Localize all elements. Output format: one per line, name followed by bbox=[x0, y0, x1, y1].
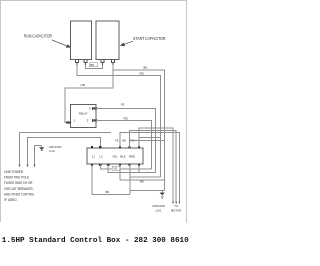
svg-text:YEL: YEL bbox=[112, 154, 118, 158]
terminal T2 (run cap right) bbox=[84, 60, 87, 63]
svg-text:RD: RD bbox=[124, 116, 129, 120]
wire YE from relay pin 5 bbox=[96, 108, 156, 172]
terminal T1 (run cap left) bbox=[75, 60, 78, 63]
svg-text:L1: L1 bbox=[92, 154, 96, 158]
ground lug (left) bbox=[40, 145, 44, 150]
terminal T3 (start cap left) bbox=[101, 60, 104, 63]
terminal block top connection dots bbox=[91, 146, 140, 149]
relay pin 1 bbox=[66, 121, 71, 123]
RED column riser to motor bundle bbox=[139, 128, 173, 203]
svg-text:RED: RED bbox=[129, 154, 135, 158]
BLK column riser to motor bundle bbox=[129, 130, 176, 203]
wire L2 terminal loop to relay pin2 wire bbox=[100, 165, 151, 170]
wire RD tap joining RED column bbox=[139, 137, 161, 139]
line power ground wire bbox=[35, 145, 42, 166]
svg-text:FUSED SWITCH OR: FUSED SWITCH OR bbox=[4, 181, 33, 185]
line power source note bbox=[4, 170, 35, 202]
label YE below block bbox=[112, 166, 119, 170]
svg-text:RUN CAPACITOR: RUN CAPACITOR bbox=[24, 34, 52, 39]
BLK terminal riser down bbox=[129, 165, 131, 195]
arrow to run capacitor bbox=[52, 40, 70, 47]
svg-text:FROM TWO POLE: FROM TWO POLE bbox=[4, 176, 30, 180]
jumper wire T2-T3 bbox=[86, 65, 103, 69]
svg-text:YE: YE bbox=[113, 167, 117, 171]
line power wire L1 (runs under relay to motor bundle) bbox=[20, 133, 112, 167]
svg-text:BK: BK bbox=[140, 180, 144, 184]
svg-text:OR: OR bbox=[81, 83, 86, 87]
terminal block TB1 bbox=[87, 148, 143, 164]
motor wire arrows bbox=[172, 202, 180, 204]
svg-text:1.5HP Standard Control Box - 2: 1.5HP Standard Control Box - 282 300 861… bbox=[2, 237, 189, 245]
svg-text:BLK: BLK bbox=[120, 154, 126, 158]
svg-text:L2: L2 bbox=[99, 154, 103, 158]
svg-text:YE: YE bbox=[121, 103, 125, 107]
line power wire L2 bbox=[28, 138, 101, 167]
wire from relay pin 2 bbox=[96, 120, 152, 169]
start capacitor C2 bbox=[96, 21, 119, 60]
svg-text:START CAPACITOR: START CAPACITOR bbox=[133, 36, 166, 41]
svg-text:CIRCUIT BREAKER,: CIRCUIT BREAKER, bbox=[4, 187, 34, 191]
wire BK from start capacitor to right bbox=[113, 65, 165, 191]
svg-text:LINE POWER: LINE POWER bbox=[4, 170, 23, 174]
svg-text:BK: BK bbox=[90, 63, 94, 67]
arrows at line power wire ends bbox=[19, 165, 36, 167]
wire aux terminal loop to YE wire bbox=[108, 165, 155, 173]
jumper from BLK riser to L1 terminal bbox=[92, 165, 130, 195]
svg-text:LUG: LUG bbox=[49, 149, 55, 153]
relay U1 bbox=[71, 105, 97, 128]
wire BLK terminal loop to RD wire bbox=[130, 176, 161, 178]
to motor label bbox=[171, 204, 181, 212]
wire from BK run to BLK riser (bottom) bbox=[130, 190, 165, 192]
svg-text:BK: BK bbox=[106, 190, 110, 194]
svg-text:BK: BK bbox=[122, 138, 126, 142]
arrow to start capacitor bbox=[121, 41, 133, 46]
ground lug label (right) bbox=[152, 204, 164, 212]
terminal block labels bbox=[92, 154, 135, 158]
svg-text:LUG: LUG bbox=[156, 208, 162, 212]
ground lug (right) bbox=[160, 191, 164, 198]
wire BK tap joining BLK column bbox=[129, 139, 164, 141]
YEL column drop and motor bundle wire bbox=[120, 133, 179, 204]
svg-text:IF USED.: IF USED. bbox=[4, 198, 18, 202]
RED terminal stub joining loop bbox=[138, 165, 140, 173]
run capacitor C1 bbox=[71, 21, 92, 60]
relay pin 5 bbox=[92, 107, 98, 110]
page frame (scan border) bbox=[1, 1, 187, 224]
BK jumper label box bbox=[89, 63, 98, 67]
wire OR from start capacitor to relay terminal 1 bbox=[65, 70, 113, 123]
svg-text:YE: YE bbox=[115, 138, 119, 142]
terminal block bottom connection dots bbox=[91, 164, 140, 167]
svg-text:MOTOR: MOTOR bbox=[171, 208, 181, 212]
svg-text:AND OTHER CONTROL: AND OTHER CONTROL bbox=[4, 192, 35, 196]
relay pin 2 bbox=[92, 119, 98, 122]
terminal T4 (start cap right) bbox=[111, 60, 114, 63]
capacitor terminal pins bbox=[75, 60, 114, 66]
svg-text:BK: BK bbox=[144, 65, 148, 69]
svg-text:RELAY: RELAY bbox=[79, 112, 88, 116]
wire YEL terminal loop to BK wire bbox=[120, 165, 165, 180]
wire RD from run capacitor to right bbox=[77, 65, 161, 177]
